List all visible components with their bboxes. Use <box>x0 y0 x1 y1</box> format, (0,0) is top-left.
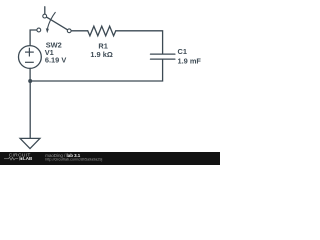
wire: switch top dangling stub <box>44 7 46 14</box>
svg-text:http://circuitlab.com/c/8h5a9a: http://circuitlab.com/c/8h5a9a9a29j <box>45 158 102 162</box>
watermark footer bar <box>0 152 220 165</box>
wire: resistor R1 right lead to top-right corner and down to C1 <box>116 31 163 54</box>
switch SW2 toggle arrow shaft <box>47 12 55 29</box>
resistor R1 body <box>88 26 116 36</box>
wire: switch lever (SW2 blade) <box>47 17 68 30</box>
capacitor C1 top plate <box>151 53 175 55</box>
CircuitLab logo battery line <box>4 157 22 160</box>
wire: junction down to ground <box>29 81 31 138</box>
wire: V1 minus terminal down to junction <box>29 68 31 81</box>
V1 plus sign <box>25 48 34 63</box>
switch SW2 common terminal circle <box>67 29 71 33</box>
wire: common terminal to resistor R1 left lead <box>71 30 88 32</box>
ground symbol triangle <box>20 138 40 148</box>
svg-text:LAB: LAB <box>23 156 33 161</box>
switch SW2 terminal circle top throw <box>43 14 47 18</box>
svg-text:1.9 mF: 1.9 mF <box>178 56 202 65</box>
voltage source V1 circle <box>19 46 42 69</box>
capacitor C1 bottom plate <box>151 58 175 60</box>
svg-text:1.9 kΩ: 1.9 kΩ <box>90 50 112 59</box>
svg-text:C1: C1 <box>178 47 187 56</box>
junction node <box>28 79 32 83</box>
svg-text:6.19 V: 6.19 V <box>45 56 66 65</box>
switch SW2 toggle arrowhead <box>46 28 49 33</box>
switch SW2 terminal circle bottom throw <box>37 28 41 32</box>
wire: switch throw 2 to V1 plus terminal <box>30 30 37 46</box>
V1 minus sign <box>25 61 34 63</box>
wire: C1 bottom lead down and bottom rail left to junction <box>30 59 162 81</box>
